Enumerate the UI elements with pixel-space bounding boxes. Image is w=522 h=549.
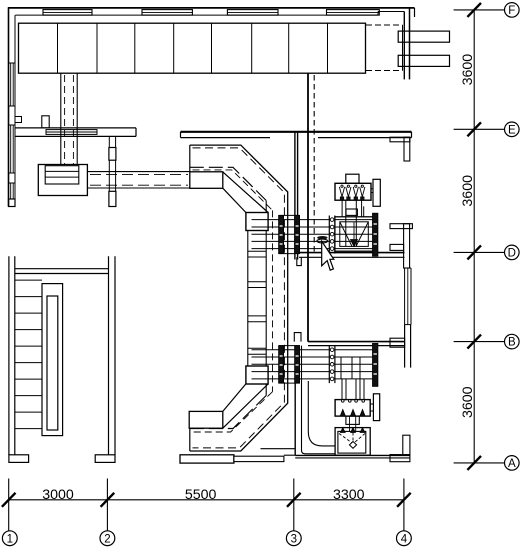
wall at grid B line pair — [308, 342, 405, 346]
inner riser duct west line — [247, 213, 249, 384]
south wall bar west — [180, 455, 234, 463]
upper unit drop legs — [342, 200, 364, 246]
interior wall column line pair — [109, 136, 115, 206]
svg-text:3000: 3000 — [42, 487, 74, 503]
wall east segment (north end) — [404, 8, 409, 80]
lower unit side connectors — [370, 404, 373, 411]
upper mixing box inner frame — [340, 222, 369, 247]
svg-text:F: F — [508, 5, 515, 17]
AHU unit inner box — [45, 166, 79, 184]
filter funnel dashed — [339, 433, 365, 443]
upper unit side cylinder — [373, 179, 380, 206]
stair room east wall foot — [95, 455, 115, 463]
stair room east wall — [109, 256, 116, 455]
main duct ring inner dashed companion vertical — [272, 210, 274, 391]
grid bubble A — [505, 456, 520, 471]
wall north exterior inner line — [15, 14, 378, 16]
equipment bank divider 3 — [134, 23, 136, 73]
grid line 3 — [293, 479, 295, 531]
stair room west wall — [9, 256, 15, 455]
grid line E — [454, 128, 505, 130]
spray nozzle 3 — [353, 185, 358, 200]
grid line B — [454, 341, 505, 343]
svg-text:3600: 3600 — [460, 175, 476, 207]
equipment bank outline (row of AHU sections) — [19, 23, 366, 73]
duct centreline dashed — [313, 75, 315, 252]
upper unit spray casing — [335, 183, 371, 200]
heater arrow 3 — [360, 410, 365, 417]
grid line 1 — [8, 479, 10, 531]
supply duct top line — [87, 171, 189, 173]
upper bolted flange pair — [329, 216, 335, 254]
tick at grid 4 — [397, 493, 411, 507]
upper flange block west bars — [279, 215, 300, 253]
main duct ring inner dashed companion top — [193, 170, 273, 211]
east wall segment with flanges — [390, 224, 412, 268]
lower unit drop legs — [342, 379, 364, 400]
equipment bank divider 5 — [211, 23, 213, 73]
wall at grid E west section — [15, 128, 136, 136]
legs small box to filter — [350, 424, 356, 431]
grid bubble 4 — [397, 531, 412, 546]
filter unit inner box — [338, 431, 366, 453]
lower pipe bank lines — [252, 350, 378, 379]
duct ring left end closures — [189, 145, 191, 451]
AHU inner division lines — [45, 171, 79, 177]
main duct ring inner boundary top — [190, 167, 266, 200]
equipment bank dashed section — [366, 25, 403, 71]
interior wall cap upper — [109, 148, 116, 161]
grid line F — [454, 9, 505, 11]
wall west exterior inner line — [14, 15, 16, 206]
equipment bank divider 4 — [173, 23, 175, 73]
diagonal duct connector lower (white fill) — [223, 384, 268, 428]
spray nozzle 1 — [339, 185, 344, 200]
svg-text:4: 4 — [401, 534, 408, 546]
tick at grid F — [467, 3, 481, 17]
grid bubble 1 — [2, 531, 17, 546]
plant room east wall (lower) — [294, 346, 296, 456]
inner riser flange box top — [246, 213, 268, 231]
riser duct joint 1 — [248, 251, 266, 257]
window WW1 in west wall — [9, 63, 16, 106]
upper mixing box funnel — [340, 222, 369, 247]
tick at grid B — [467, 335, 481, 349]
window W1 in north wall — [43, 10, 92, 16]
main duct ring outer boundary — [190, 145, 288, 451]
spray nozzle 2 — [346, 185, 351, 200]
AHU unit outer box — [38, 165, 87, 196]
tick at grid 2 — [101, 493, 115, 507]
dimension line horizontal south — [9, 499, 404, 501]
svg-text:A: A — [508, 458, 516, 470]
svg-text:E: E — [508, 124, 516, 136]
wall at grid D line pair — [296, 253, 405, 258]
grid bubble F — [505, 3, 520, 18]
riser duct joint 2 — [248, 282, 266, 288]
interior wall cap lower — [109, 191, 116, 206]
wall stub above south wall west of plant room — [261, 449, 296, 456]
spray nozzle 4 — [360, 185, 365, 200]
east wall window — [405, 268, 411, 325]
filter arrow 1 — [340, 428, 345, 433]
grid bubble 2 — [100, 531, 115, 546]
wall at grid E east section bottom line — [181, 132, 412, 138]
grid bubble E — [505, 122, 520, 137]
window W4 in north wall — [327, 10, 380, 16]
stair treads — [15, 280, 42, 429]
plenum box upper — [190, 172, 223, 189]
window W2 in north wall — [142, 10, 192, 16]
upper unit drain box — [346, 209, 357, 215]
equipment bank divider 2 — [96, 23, 98, 73]
upper east flange bar — [373, 213, 378, 256]
filter arrow 2 — [351, 428, 356, 433]
stair room west wall foot — [9, 455, 29, 463]
window WW3 in west wall — [9, 183, 16, 199]
column stub above grid E wall — [42, 116, 49, 128]
grid bubble D — [505, 245, 520, 260]
condensate pipe with bend — [308, 381, 335, 446]
riser duct joint 3 — [248, 316, 266, 322]
east wall south end — [390, 435, 410, 462]
wall end notch above grid B — [294, 333, 301, 342]
lower unit drain box inner lines — [350, 416, 356, 424]
riser duct dashed inner lines — [65, 75, 74, 165]
svg-text:3600: 3600 — [460, 54, 476, 86]
equipment bank divider 8 — [327, 23, 329, 73]
lower flange block west bars — [279, 346, 300, 384]
upper unit side connectors — [371, 189, 373, 193]
wall west exterior outer line — [8, 7, 10, 206]
svg-text:3: 3 — [291, 534, 297, 546]
upper unit top casing — [346, 174, 359, 183]
east wall pilaster at grid B — [390, 338, 405, 347]
lower east flange bar — [373, 343, 378, 386]
tick at grid 1 — [2, 493, 16, 507]
wall north step at east end — [378, 8, 415, 17]
svg-text:B: B — [508, 337, 516, 349]
wall north exterior outer line — [8, 7, 415, 9]
dimension line vertical east — [473, 10, 475, 463]
grid bubble 3 — [286, 531, 301, 546]
svg-text:D: D — [508, 248, 516, 260]
door jamb below grid D wall — [297, 257, 302, 265]
filter drain diamond — [349, 442, 356, 449]
lower bolted flange pair — [329, 346, 335, 384]
equipment bank divider 7 — [288, 23, 290, 73]
riser duct joint 4 — [248, 348, 266, 354]
tick at grid 3 — [287, 493, 301, 507]
svg-text:1: 1 — [7, 534, 13, 546]
south wall bar thin — [234, 456, 284, 461]
tick at grid E — [467, 122, 481, 136]
west wall stub at E level — [15, 117, 22, 123]
wall at grid E east section top line — [181, 131, 412, 133]
window W3 in north wall — [227, 10, 278, 16]
plant room east wall (upper) — [295, 132, 298, 260]
main duct ring inner boundary bottom — [190, 396, 266, 429]
lower bank drop stubs — [341, 357, 360, 379]
grid line 4 — [403, 479, 405, 531]
supply duct dashed inner lines — [90, 174, 188, 185]
heater arrow 1 — [340, 410, 345, 417]
discharge plate upper — [398, 31, 449, 42]
filter unit outer box — [335, 428, 370, 456]
window in grid E west wall — [46, 130, 97, 135]
riser duct east line — [76, 73, 78, 164]
filter arrow 3 — [360, 428, 365, 433]
diagonal duct connector upper (white fill) — [223, 172, 268, 213]
window WW2 in west wall — [9, 125, 16, 173]
svg-text:3600: 3600 — [460, 386, 476, 418]
east wall cap at grid E — [390, 137, 410, 161]
heater arrow 2 — [350, 410, 355, 417]
main duct ring outer dashed companion — [193, 148, 285, 448]
lower heater casing — [335, 400, 370, 417]
svg-text:2: 2 — [104, 534, 110, 546]
interior long wall line — [307, 73, 309, 341]
diagonal duct connector lower edges — [223, 384, 268, 428]
equipment bank divider 6 — [251, 23, 253, 73]
tick at grid D — [467, 245, 481, 259]
drain pipe along wall — [302, 346, 336, 454]
svg-text:3300: 3300 — [333, 487, 365, 503]
main duct ring inner dashed companion bottom — [193, 392, 273, 432]
mouse cursor arrow — [322, 241, 334, 270]
grid line A — [454, 462, 505, 464]
grid line D — [454, 251, 505, 253]
west wall end cap — [9, 199, 16, 207]
butterfly valve on pipes — [317, 236, 328, 243]
upper mixing box — [335, 217, 373, 251]
stair handrail inner — [47, 296, 58, 430]
svg-text:5500: 5500 — [185, 487, 217, 503]
discharge plate lower — [398, 55, 449, 66]
upper pipe bank lines — [252, 220, 378, 249]
equipment bank divider 1 — [57, 23, 59, 73]
lower unit side cylinder — [373, 394, 379, 421]
supply duct bottom line — [87, 187, 189, 189]
lower unit drain box — [346, 416, 359, 424]
inner riser duct east line — [265, 201, 267, 396]
inner riser flange box bottom — [246, 366, 268, 384]
stair room north wall — [15, 269, 109, 274]
diagonal duct connector upper edges — [223, 172, 268, 213]
east wall solid segment — [405, 325, 411, 368]
south wall east double line — [295, 455, 410, 458]
grid bubble B — [505, 334, 520, 349]
grid line 2 — [106, 479, 108, 531]
stair handrail outer — [42, 284, 63, 436]
tick at grid A — [467, 456, 481, 470]
lower heater top bolts — [342, 400, 365, 403]
riser duct west line — [60, 73, 62, 164]
plenum box lower — [189, 411, 223, 428]
